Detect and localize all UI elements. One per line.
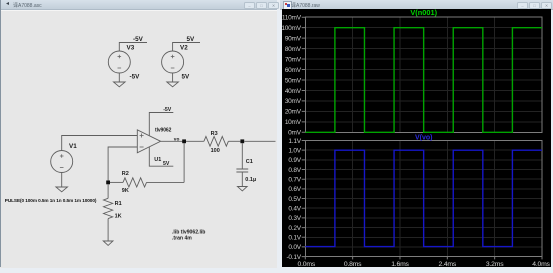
svg-text:0mV: 0mV [288,130,302,137]
op-amp U1 tlv9062 [137,130,160,153]
svg-text:0.2V: 0.2V [288,225,301,232]
svg-text:1.6ms: 1.6ms [391,261,409,267]
junction node R3/C1 [240,139,244,143]
svg-text:V3: V3 [127,45,135,52]
svg-text:100mV: 100mV [281,25,301,32]
svg-text:0.1µ: 0.1µ [245,177,256,183]
svg-text:40mV: 40mV [285,88,302,95]
svg-text:0.0ms: 0.0ms [298,261,316,267]
wire R2 to vo junction [147,181,185,183]
ground (C1) [237,187,247,191]
wire C1 to ground [241,172,243,187]
svg-text:0.0V: 0.0V [288,244,301,251]
wire V3 bottom to ground [118,73,120,82]
junction node vo [182,139,186,143]
junction node R1/R2 [106,181,110,185]
x axis ticks [305,257,542,260]
svg-text:V2: V2 [180,45,188,52]
resistor R3 [204,136,228,146]
pane 2 grid [305,141,542,257]
ground (V2) [167,82,179,87]
svg-text:10mV: 10mV [285,119,302,126]
wire V1 to op-amp noninverting input [62,136,138,151]
pane 1 grid [305,17,542,132]
wire node down to C1 [241,143,243,169]
wire V2 bottom to ground [172,73,174,82]
svg-text:0.3V: 0.3V [288,215,301,222]
svg-text:R3: R3 [211,131,218,137]
svg-text:1K: 1K [115,214,122,220]
wire V3 top to -5V flag [119,43,147,52]
resistor R2 [123,178,147,187]
svg-text:20mV: 20mV [285,109,302,116]
voltage source V3 [108,51,130,73]
pane 1 y axis labels [281,15,301,137]
ground (V1) [56,187,68,192]
svg-text:100: 100 [211,148,220,154]
svg-text:.tran 4m: .tran 4m [172,236,192,242]
svg-text:60mV: 60mV [285,67,302,74]
svg-text:vo: vo [174,137,180,142]
svg-text:5V: 5V [187,36,196,43]
trace V(n001) green [305,28,542,133]
capacitor C1 [236,169,248,172]
svg-text:-5V: -5V [130,74,141,81]
svg-text:-0.1V: -0.1V [287,254,302,261]
pane 1 border [305,17,542,132]
voltage source V2 [162,51,184,73]
wire V1 bottom to ground [61,173,63,188]
svg-text:V(n001): V(n001) [410,8,437,17]
svg-text:5V: 5V [163,161,170,167]
wire R3 to C1 node [228,140,240,142]
pane 2 border [305,141,542,257]
wire inverting input to R1/R2 node [108,147,137,181]
wire U1 V- pin to 5V flag [149,147,173,166]
svg-text:0.8ms: 0.8ms [344,261,362,267]
svg-text:70mV: 70mV [285,56,302,63]
wire R1/R2 node down to R1 [107,184,109,198]
svg-text:90mV: 90mV [285,35,302,42]
svg-text:U1: U1 [154,157,161,163]
svg-text:1.1V: 1.1V [288,138,301,145]
svg-text:80mV: 80mV [285,46,302,53]
x axis labels [298,261,551,268]
svg-text:R2: R2 [122,171,129,177]
svg-text:0.6V: 0.6V [288,186,301,193]
pane 1 y axis ticks [302,17,306,132]
svg-text:0.8V: 0.8V [288,167,301,174]
wire U1 V+ pin to -5V flag [149,113,173,136]
ground (R1) [103,241,113,245]
svg-text:.lib tlv9062.lib: .lib tlv9062.lib [172,229,205,235]
trace V(vo) blue [305,150,542,246]
wire V2 top to 5V flag [173,43,200,52]
left schematic window [0,0,277,267]
svg-text:2.4ms: 2.4ms [439,261,457,267]
svg-text:-5V: -5V [133,36,144,43]
svg-text:30mV: 30mV [285,98,302,105]
svg-text:0.4V: 0.4V [288,206,301,213]
svg-text:PULSE(0 100m 0.5m 1n 1n 0.5m 1: PULSE(0 100m 0.5m 1n 1n 0.5m 1m 10000) [5,198,97,203]
svg-text:4.0ms: 4.0ms [532,261,550,267]
pane 2 y axis labels [287,138,302,261]
svg-text:C1: C1 [246,159,253,165]
right waveform window [280,0,553,267]
svg-text:tlv9062: tlv9062 [155,128,172,134]
resistor R1 [104,198,113,218]
wire vo junction down to feedback [183,143,185,182]
wire R1/R2 node to R2 [110,181,123,183]
ground (V3) [114,82,126,87]
svg-text:V1: V1 [69,143,77,150]
svg-text:1.0V: 1.0V [288,147,301,154]
svg-text:110mV: 110mV [282,15,302,22]
voltage source V1 [51,151,73,173]
wire R1 to ground [107,219,109,241]
svg-text:5V: 5V [182,74,191,81]
svg-text:9K: 9K [122,188,129,194]
pane 2 y axis ticks [302,141,306,257]
wire C1 node to right [244,140,275,142]
svg-text:0.9V: 0.9V [288,157,301,164]
wire U1 output to node vo [161,140,204,142]
svg-text:-5V: -5V [163,107,172,113]
svg-text:0.5V: 0.5V [288,196,301,203]
svg-text:V(vo): V(vo) [415,135,433,142]
svg-text:R1: R1 [115,201,122,207]
svg-text:50mV: 50mV [285,77,302,84]
svg-text:0.7V: 0.7V [288,177,301,184]
svg-text:3.2ms: 3.2ms [486,261,504,267]
svg-text:0.1V: 0.1V [288,235,301,242]
